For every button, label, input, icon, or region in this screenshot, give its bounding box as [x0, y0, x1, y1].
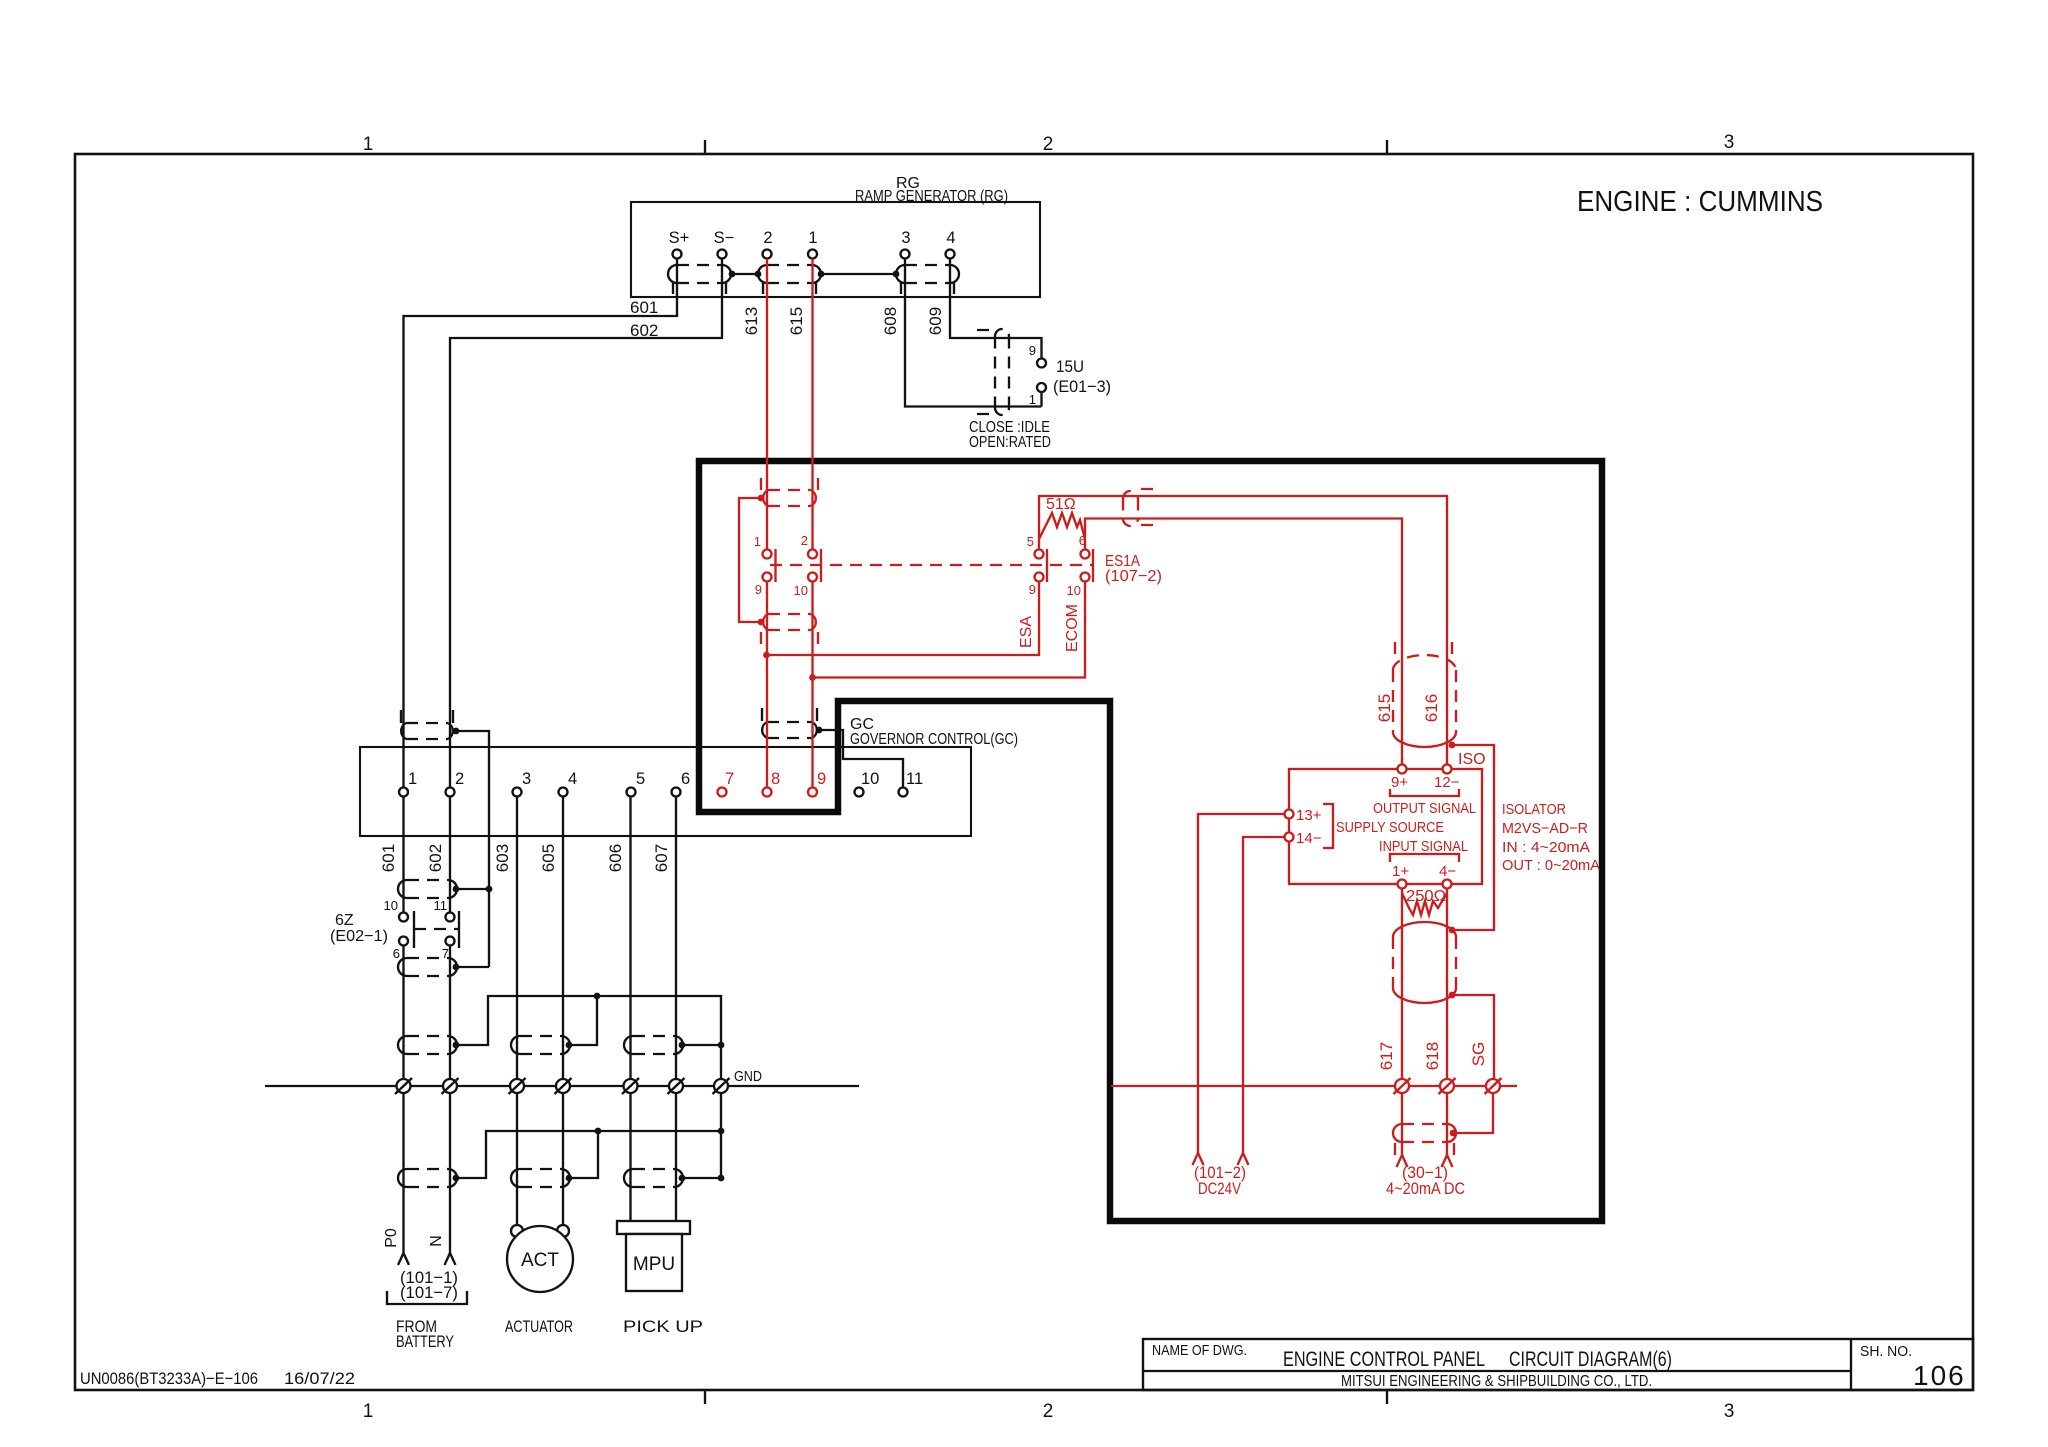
isolator terminal 14- — [1285, 833, 1294, 842]
cable shield 30-1 tails — [1395, 1143, 1454, 1156]
border frame — [75, 154, 1973, 1390]
junction dot bus Z oval2 — [595, 1128, 602, 1135]
ES1A contact bar 2 — [1092, 549, 1094, 582]
svg-text:IN : 4~20mA: IN : 4~20mA — [1502, 839, 1590, 856]
ground terminal 603 — [509, 1078, 526, 1094]
isolator terminal 12- — [1443, 765, 1452, 774]
shield drain wire row2 to bus — [456, 888, 489, 890]
terminal GC 6 — [672, 788, 681, 797]
shield drain dot 615/616 — [1449, 742, 1456, 749]
junction dot row6 oval3 — [718, 1175, 725, 1182]
svg-text:609: 609 — [926, 307, 945, 335]
svg-text:UN0086(BT3233A)−E−106: UN0086(BT3233A)−E−106 — [80, 1369, 258, 1388]
terminal GC 10 — [855, 788, 864, 797]
svg-text:5: 5 — [1027, 534, 1034, 549]
ground terminal 601 — [395, 1078, 412, 1094]
switch 6Z contact 11 — [446, 913, 455, 922]
cable shield oval above GC terminals 1/2 — [401, 710, 453, 739]
svg-text:9: 9 — [1029, 343, 1036, 358]
svg-text:10: 10 — [1067, 583, 1081, 598]
svg-text:10: 10 — [794, 583, 808, 598]
terminal RG S- — [718, 250, 727, 259]
terminal GC 3 — [513, 788, 522, 797]
svg-text:M2VS−AD−R: M2VS−AD−R — [1502, 820, 1588, 837]
svg-text:615: 615 — [787, 307, 806, 335]
switch 6Z pole bar 1 — [413, 911, 415, 948]
cable shield oval red 613/615 upper — [763, 490, 816, 506]
svg-text:PICK UP: PICK UP — [623, 1317, 703, 1336]
svg-text:(107−2): (107−2) — [1105, 568, 1162, 585]
svg-text:11: 11 — [434, 898, 448, 913]
svg-text:51Ω: 51Ω — [1046, 496, 1076, 513]
svg-text:GND: GND — [734, 1068, 762, 1085]
svg-text:ENGINE CONTROL PANEL: ENGINE CONTROL PANEL — [1283, 1348, 1485, 1371]
svg-text:4: 4 — [946, 229, 955, 247]
switch 6Z pole bar 2 — [458, 911, 460, 948]
cable shield oval 601/602 row5 — [398, 1036, 457, 1054]
shield drain dot 617/618 top — [1449, 927, 1456, 934]
junction dot bus Z right — [718, 1128, 725, 1135]
cable shield oval 603/605 row5 — [511, 1036, 570, 1054]
cable shield oval 603/605 row6 — [511, 1169, 570, 1187]
svg-text:9: 9 — [755, 582, 762, 597]
shield drain row5 oval2 riser — [569, 996, 597, 1045]
shield drain row6 oval2 riser — [569, 1131, 598, 1178]
svg-text:1: 1 — [1029, 392, 1036, 407]
svg-text:ESA: ESA — [1018, 616, 1035, 648]
resistor 250ohm — [1402, 893, 1447, 915]
svg-text:2: 2 — [1043, 1401, 1054, 1422]
wire 605 GC4 to ACT — [562, 797, 564, 1227]
junction dot bus-oval2 — [594, 993, 601, 1000]
wire ES1A 5 riser to 616 line — [1039, 496, 1447, 765]
terminal GC 2 — [446, 788, 455, 797]
isolator terminal 4- — [1443, 880, 1452, 889]
svg-text:INPUT SIGNAL: INPUT SIGNAL — [1379, 838, 1468, 855]
svg-text:12−: 12− — [1434, 774, 1460, 791]
shield drain wire to terminal 11 — [819, 730, 903, 788]
switch 6Z mechanical link dashed — [414, 928, 459, 930]
bracket input pins — [1390, 854, 1459, 862]
bracket output pins — [1390, 789, 1459, 796]
shield drain dot GC cable — [816, 727, 823, 734]
cable shield oval 601/602 row2 — [398, 880, 457, 898]
svg-text:615: 615 — [1375, 694, 1394, 722]
svg-text:ISOLATOR: ISOLATOR — [1502, 801, 1566, 818]
shield link wire oval2-oval3 — [821, 273, 896, 275]
ground terminal SG — [1485, 1078, 1502, 1094]
svg-text:7: 7 — [725, 770, 734, 788]
switch 15U contact 1 — [1037, 383, 1046, 392]
svg-text:3: 3 — [1724, 132, 1735, 153]
terminal RG S+ — [673, 250, 682, 259]
shield drain dot red lower — [758, 619, 765, 626]
terminal GC 8 — [763, 788, 772, 797]
shield drain bus wire — [456, 731, 489, 967]
ground terminal 605 — [555, 1078, 572, 1094]
cable shield oval 606/607 row5 — [624, 1036, 683, 1054]
svg-text:106: 106 — [1913, 1360, 1966, 1391]
arrow DC24V wire1 — [1193, 1153, 1204, 1165]
shield drain bus below GND — [456, 1131, 721, 1178]
svg-text:ACTUATOR: ACTUATOR — [505, 1317, 573, 1336]
shield drain dot 617/618 bottom — [1449, 992, 1456, 999]
switch 6Z contact 7 — [446, 937, 455, 946]
connector contact 2 upper — [808, 550, 817, 559]
cable shield red at panel boundary — [1123, 489, 1153, 526]
wire 601 6Z contact 6 to P0 arrow — [402, 946, 404, 1254]
wire SG below GND — [1454, 1093, 1493, 1133]
actuator ACT body — [507, 1226, 573, 1292]
shield drain dot row6 oval1 — [453, 1175, 460, 1182]
switch ES1A contact 9 — [1035, 573, 1044, 582]
pickup MPU flange — [617, 1221, 690, 1234]
ground terminal 617 — [1394, 1078, 1411, 1094]
svg-text:6: 6 — [681, 770, 690, 788]
wire 613 contact to GC8 — [766, 582, 768, 788]
svg-text:DC24V: DC24V — [1198, 1179, 1242, 1198]
wire 603 GC3 to ACT — [516, 797, 518, 1227]
isolator terminal 9+ — [1398, 765, 1407, 774]
resistor 51ohm — [1039, 513, 1085, 539]
junction dot ECOM on 615 — [809, 674, 816, 681]
svg-text:616: 616 — [1422, 694, 1441, 722]
svg-text:607: 607 — [652, 844, 671, 872]
arrow wire 617 end — [1397, 1155, 1408, 1167]
wire 613 RG2 to contact — [766, 259, 768, 550]
svg-text:617: 617 — [1377, 1042, 1396, 1070]
wire 606 GC5 to MPU — [629, 797, 631, 1222]
svg-text:5: 5 — [636, 770, 645, 788]
engine control panel thick boundary — [699, 461, 1602, 1221]
terminal GC 11 — [899, 788, 908, 797]
pickup MPU body — [626, 1234, 682, 1291]
svg-text:OPEN:RATED: OPEN:RATED — [969, 434, 1051, 451]
svg-text:6Z: 6Z — [335, 912, 354, 929]
svg-text:1: 1 — [363, 134, 374, 155]
junction dot — [755, 271, 762, 278]
cable shield oval GC 8/9 black dashed — [762, 708, 817, 738]
svg-text:11: 11 — [906, 770, 923, 788]
terminal RG 2 — [763, 250, 772, 259]
junction dot ESA on 613 — [763, 652, 770, 659]
switch ES1A contact 6 — [1081, 550, 1090, 559]
cable shield 615/616 tails top — [1395, 642, 1452, 654]
ground terminal 607 — [668, 1078, 685, 1094]
svg-text:16/07/22: 16/07/22 — [284, 1369, 355, 1388]
svg-text:8: 8 — [771, 770, 780, 788]
svg-text:601: 601 — [379, 844, 398, 872]
wire 602 S- to GC terminal 2 — [450, 259, 722, 788]
shield link wire oval1-oval2 — [731, 273, 758, 275]
arrow DC24V wire2 — [1238, 1153, 1249, 1165]
arrow wire 601 end — [398, 1253, 409, 1265]
mechanical link dashed to ES1A — [770, 564, 1094, 566]
contact bar pole 2 — [820, 549, 822, 582]
connector contact 9 lower — [763, 573, 772, 582]
bracket supply pins — [1323, 804, 1333, 848]
wire 618 below GND — [1446, 1093, 1448, 1155]
svg-text:(E02−1): (E02−1) — [330, 928, 388, 945]
svg-text:10: 10 — [384, 898, 398, 913]
shield drain wire ISO — [1452, 745, 1494, 930]
svg-text:13+: 13+ — [1296, 807, 1322, 824]
terminal RG 4 — [946, 250, 955, 259]
cable shield oval red 613/615 lower — [763, 614, 816, 630]
svg-text:618: 618 — [1423, 1042, 1442, 1070]
svg-text:SUPPLY SOURCE: SUPPLY SOURCE — [1336, 819, 1444, 836]
svg-text:613: 613 — [742, 307, 761, 335]
wire 615 RG1 to contact — [811, 259, 813, 550]
wire 14- to DC24V — [1243, 837, 1285, 1153]
svg-text:CIRCUIT DIAGRAM(6): CIRCUIT DIAGRAM(6) — [1509, 1348, 1672, 1371]
arrow wire 618 end — [1442, 1155, 1453, 1167]
wire 602 6Z contact 7 to N arrow — [449, 946, 451, 1254]
svg-text:2: 2 — [1043, 134, 1054, 155]
svg-text:RAMP GENERATOR (RG): RAMP GENERATOR (RG) — [855, 188, 1008, 205]
wire 601 GC1 to 6Z contact 10 — [402, 797, 404, 913]
wire 617 from 1+ — [1401, 889, 1403, 1080]
svg-text:1: 1 — [408, 770, 417, 788]
ground terminal 618 — [1439, 1078, 1456, 1094]
svg-text:BATTERY: BATTERY — [396, 1332, 454, 1351]
svg-text:4~20mA DC: 4~20mA DC — [1386, 1179, 1465, 1198]
cable shield red tails above — [761, 478, 818, 490]
svg-text:606: 606 — [606, 844, 625, 872]
svg-text:14−: 14− — [1296, 830, 1322, 847]
cable shield oval 601/602 row6 — [398, 1169, 457, 1187]
terminal GC 4 — [559, 788, 568, 797]
ground bus GND — [265, 1085, 859, 1087]
wire 15U pin1 stub — [1040, 392, 1042, 407]
shield drain dot row5 oval2 — [566, 1042, 573, 1049]
svg-text:1: 1 — [754, 534, 761, 549]
svg-text:ENGINE : CUMMINS: ENGINE : CUMMINS — [1577, 186, 1823, 218]
ramp generator RG box — [631, 202, 1040, 297]
svg-text:1+: 1+ — [1392, 863, 1409, 880]
cable shield oval 606/607 row6 — [624, 1169, 683, 1187]
terminal RG 3 — [901, 250, 910, 259]
terminal GC 9 — [808, 788, 817, 797]
terminal GC 7 — [718, 788, 727, 797]
svg-text:9: 9 — [817, 770, 826, 788]
shield drain row6 oval3 link — [682, 1177, 721, 1179]
svg-text:N: N — [428, 1235, 445, 1247]
svg-text:3: 3 — [522, 770, 531, 788]
zone tick bottom 2-3 — [1386, 1390, 1388, 1404]
shield drain wire SG — [1452, 995, 1494, 1079]
shield drain dot row5 oval3 — [679, 1042, 686, 1049]
wire 617 below GND — [1401, 1093, 1403, 1155]
svg-text:605: 605 — [539, 844, 558, 872]
terminal GC 1 — [399, 788, 408, 797]
cable shield oval RG pair 3/4 — [896, 265, 959, 294]
isolator terminal 13+ — [1285, 810, 1294, 819]
svg-text:4: 4 — [568, 770, 577, 788]
shield drain dot oval 601/602 — [453, 728, 460, 735]
svg-text:S−: S− — [714, 229, 735, 247]
junction dot bus-oval3 — [718, 1042, 725, 1049]
shield drain row5 oval3 link — [682, 1044, 721, 1046]
wire 615 contact to GC9 — [811, 582, 813, 788]
shield drain dot row6 oval2 — [566, 1175, 573, 1182]
svg-text:S+: S+ — [669, 229, 690, 247]
svg-text:4−: 4− — [1439, 863, 1456, 880]
svg-text:3: 3 — [1724, 1401, 1735, 1422]
ground terminal 606 — [622, 1078, 639, 1094]
svg-text:SH. NO.: SH. NO. — [1860, 1343, 1912, 1360]
isolator U1 box — [1289, 769, 1482, 884]
cable shield oval 30-1 — [1393, 1124, 1456, 1142]
cable shield red tails below — [761, 632, 818, 644]
shield drain dot red upper — [758, 495, 765, 502]
switch ES1A contact 5 — [1035, 550, 1044, 559]
shield drain loop wire — [739, 498, 761, 622]
wire 13+ to DC24V — [1198, 814, 1285, 1153]
ES1A contact bar 1 — [1046, 549, 1048, 582]
switch 15U contact 9 — [1037, 359, 1046, 368]
actuator ACT terminal 3 — [511, 1225, 523, 1237]
title block outline — [1143, 1339, 1973, 1390]
ground bus red — [1111, 1085, 1517, 1087]
wire ES1A 6 riser to 615 line — [1085, 519, 1402, 765]
ground terminal 602 — [442, 1078, 459, 1094]
shield drain dot row2 — [453, 886, 460, 893]
zone tick top 1-2 — [704, 140, 706, 154]
connector contact 1 upper — [763, 550, 772, 559]
svg-text:9: 9 — [1029, 582, 1036, 597]
wire ESA from contact 9 — [767, 582, 1040, 656]
svg-text:9+: 9+ — [1391, 774, 1408, 791]
svg-text:2: 2 — [455, 770, 464, 788]
junction dot bus — [486, 886, 493, 893]
shield drain bus above GND — [456, 996, 721, 1178]
isolator terminal 1+ — [1398, 880, 1407, 889]
svg-text:6: 6 — [393, 946, 400, 961]
svg-text:3: 3 — [901, 229, 910, 247]
cable shield 617/618 — [1393, 922, 1456, 1003]
junction dot — [893, 271, 900, 278]
svg-text:ISO: ISO — [1458, 751, 1486, 768]
wire 607 GC6 to MPU — [675, 797, 677, 1222]
shield drain dot row6 oval3 arc — [679, 1175, 686, 1182]
wire 608 RG3 down — [905, 259, 1042, 407]
svg-text:MPU: MPU — [633, 1254, 675, 1275]
svg-text:NAME OF DWG.: NAME OF DWG. — [1152, 1342, 1247, 1359]
svg-text:602: 602 — [426, 844, 445, 872]
wire 618 from 4- — [1446, 889, 1448, 1080]
cable shield oval 601/602 row4 — [398, 958, 457, 976]
junction dot — [818, 271, 825, 278]
terminal GC 5 — [627, 788, 636, 797]
wire 609 RG4 to switch 15U — [950, 259, 1042, 359]
cable shield oval RG pair S+/S- — [668, 265, 731, 294]
svg-text:MITSUI ENGINEERING & SHIPBUILD: MITSUI ENGINEERING & SHIPBUILDING CO., L… — [1341, 1373, 1652, 1390]
svg-text:OUTPUT SIGNAL: OUTPUT SIGNAL — [1373, 800, 1476, 817]
cable shield 615/616 — [1393, 655, 1456, 747]
shield drain dot row4 — [453, 964, 460, 971]
connector contact 10 lower — [808, 573, 817, 582]
svg-text:(E01−3): (E01−3) — [1053, 377, 1111, 396]
contact bar pole 1 — [774, 549, 776, 582]
svg-text:608: 608 — [881, 307, 900, 335]
arrow wire 602 end — [445, 1253, 456, 1265]
svg-text:2: 2 — [763, 229, 772, 247]
svg-text:15U: 15U — [1056, 357, 1084, 376]
svg-text:ECOM: ECOM — [1064, 604, 1081, 652]
switch 6Z contact 10 — [399, 913, 408, 922]
shield drain dot 30-1 — [1450, 1130, 1457, 1137]
switch ES1A contact 10 — [1081, 573, 1090, 582]
svg-text:(101−7): (101−7) — [400, 1283, 458, 1302]
svg-text:601: 601 — [630, 298, 658, 317]
zone tick top 2-3 — [1386, 140, 1388, 154]
cable shield oval RG pair 2/1 — [758, 265, 821, 294]
battery bracket — [387, 1291, 467, 1304]
svg-text:10: 10 — [861, 770, 879, 788]
svg-text:GOVERNOR CONTROL(GC): GOVERNOR CONTROL(GC) — [850, 731, 1018, 748]
terminal RG 1 — [808, 250, 817, 259]
wire 602 GC2 to 6Z contact 11 — [449, 797, 451, 913]
svg-text:2: 2 — [801, 533, 808, 548]
cable shield 15U vertical — [977, 329, 1009, 415]
svg-text:SG: SG — [1469, 1042, 1488, 1067]
svg-text:P0: P0 — [383, 1228, 400, 1248]
svg-text:1: 1 — [808, 229, 817, 247]
governor control GC box — [360, 747, 971, 836]
title block sh.no divider — [1850, 1339, 1852, 1390]
shield drain wire row4 to bus — [456, 966, 489, 968]
wire ECOM from contact 10 — [813, 582, 1086, 678]
svg-text:ACT: ACT — [521, 1250, 559, 1271]
svg-text:OUT : 0~20mA: OUT : 0~20mA — [1502, 857, 1600, 874]
actuator ACT terminal 4 — [557, 1225, 569, 1237]
ground terminal shield bus — [713, 1078, 730, 1094]
title block middle divider — [1143, 1370, 1851, 1372]
shield drain dot row5 oval1 — [453, 1042, 460, 1049]
zone tick bottom 1-2 — [704, 1390, 706, 1404]
svg-text:1: 1 — [363, 1401, 374, 1422]
svg-text:603: 603 — [493, 844, 512, 872]
switch 6Z contact 6 — [399, 937, 408, 946]
junction dot — [729, 271, 736, 278]
wire 601 S+ to GC terminal 1 — [404, 259, 678, 788]
